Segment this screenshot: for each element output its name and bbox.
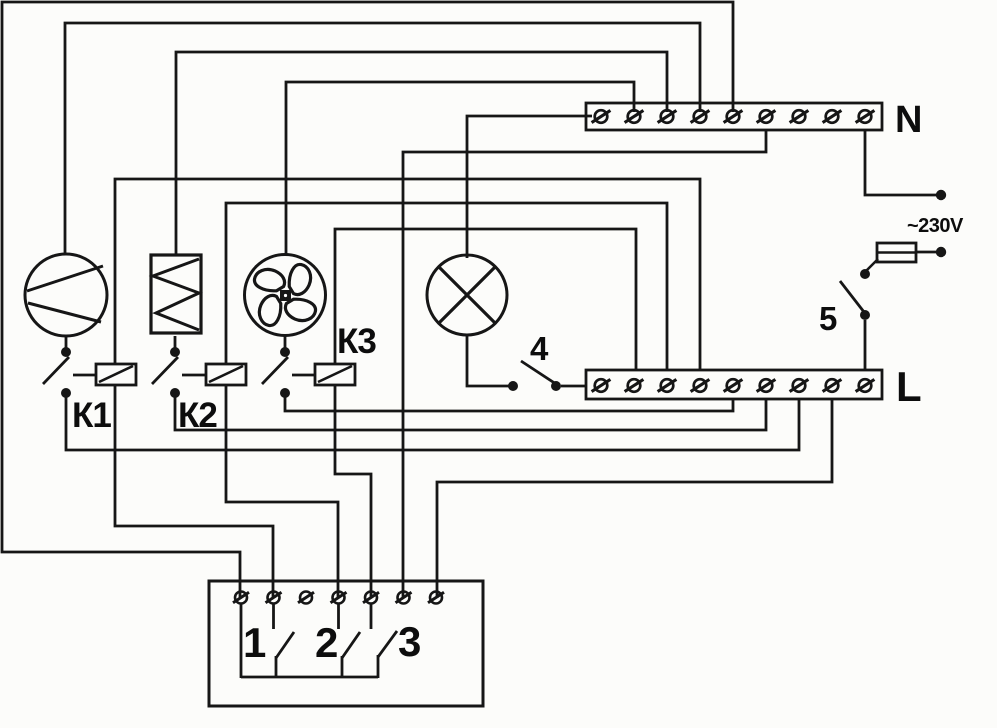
wire: K1 contact bottom to L bus terminal L7 <box>66 395 799 450</box>
wire: load bottom to K2 contact <box>174 336 177 349</box>
svg-text:2: 2 <box>315 619 338 666</box>
wire: relay K1 coil bottom to thermostat-box terminal 2 <box>115 384 273 598</box>
svg-text:5: 5 <box>819 300 837 337</box>
wire: thermostat switch 2 upper from terminal 4 <box>337 604 340 629</box>
thermostat terminal 6 <box>396 592 412 604</box>
svg-text:1: 1 <box>243 619 266 666</box>
svg-text:3: 3 <box>398 618 421 665</box>
svg-text:~230V: ~230V <box>907 215 964 237</box>
svg-text:К1: К1 <box>72 396 111 435</box>
terminal N6 <box>757 110 776 123</box>
mechanical link dash K3 <box>292 374 315 377</box>
wire: switch 4 to L block <box>561 385 587 388</box>
motor M (compressor), circle symbol <box>25 254 107 336</box>
node: mains live terminal <box>936 247 946 257</box>
switch blade of relay contact K2 <box>152 357 178 384</box>
thermostat terminal 1 <box>233 592 249 604</box>
node: K3 contact upper terminal <box>280 347 290 357</box>
terminal block N (bus bar) <box>586 103 882 130</box>
terminal N7 <box>790 110 809 123</box>
wire: relay K2 coil top to L bus terminal L3 <box>226 203 667 370</box>
terminal L8 <box>823 379 842 392</box>
svg-text:К3: К3 <box>337 322 376 361</box>
svg-text:N: N <box>895 99 922 141</box>
node: K1 contact lower terminal <box>61 388 71 398</box>
wire: L bus terminal L8 to thermostat-box terminal 7 <box>437 399 832 598</box>
mechanical link dash K2 <box>182 374 206 377</box>
terminal L2 <box>625 379 644 392</box>
node: switch 4 left terminal <box>508 381 518 391</box>
wire: thermostat common bus <box>241 676 378 679</box>
fan (circle with 4-blade impeller) <box>245 255 326 336</box>
switch blade of relay contact K3 <box>262 357 288 384</box>
lamp (circle with X) <box>427 255 507 335</box>
relay coil K2 (box with diagonal) <box>206 364 246 385</box>
terminal N9 <box>856 110 875 123</box>
terminal N4 <box>691 110 710 123</box>
relay coil K3 (box with diagonal) <box>315 364 355 385</box>
fuse FU (box with through line) <box>877 243 916 262</box>
terminal N1 <box>592 110 611 123</box>
node: K2 contact lower terminal <box>170 388 180 398</box>
wire: K2 contact bottom to L bus terminal L6 <box>175 395 766 430</box>
wire: switch 5 to L bus terminal L9 <box>864 320 867 370</box>
node: switch 5 upper terminal <box>860 269 870 279</box>
terminal L1 <box>592 379 611 392</box>
svg-text:К2: К2 <box>178 396 217 435</box>
wire: fan top to N bus terminal N2 <box>286 82 634 256</box>
wire: live terminal to fuse <box>916 251 936 254</box>
terminal L3 <box>658 379 677 392</box>
node: mains neutral terminal ~230V <box>936 190 946 200</box>
thermostat terminal 5 <box>363 592 379 604</box>
mechanical link dash K1 <box>73 374 96 377</box>
wire: relay K2 coil bottom to thermostat-box terminal 4 <box>226 384 338 598</box>
thermostat switch 1 blade <box>276 632 294 658</box>
terminal L5 <box>724 379 743 392</box>
wire: load bottom to K1 contact <box>65 336 68 349</box>
wire: switch 3 blade to bus <box>377 655 380 678</box>
wire: motor M top to N bus terminal N4 <box>65 23 700 254</box>
node: K1 contact upper terminal <box>61 347 71 357</box>
terminal L6 <box>757 379 776 392</box>
wire: lamp top to N bus terminal N1 <box>467 116 592 258</box>
node: K2 contact upper terminal <box>170 347 180 357</box>
wire: N bus terminal N6 to thermostat-box terminal 6 <box>403 130 766 598</box>
wire: K3 contact bottom to L bus terminal L5 <box>285 395 733 411</box>
wire: lamp bottom to switch 4 <box>467 335 509 386</box>
svg-text:4: 4 <box>530 330 549 367</box>
node: K3 contact lower terminal <box>280 388 290 398</box>
node: switch 4 right terminal <box>551 381 561 391</box>
switch blade of relay contact K1 <box>43 357 69 384</box>
terminal N3 <box>658 110 677 123</box>
node: switch 5 lower terminal <box>860 310 870 320</box>
wire: relay K3 coil bottom to thermostat-box terminal 5 <box>335 384 371 598</box>
terminal L4 <box>691 379 710 392</box>
wire: relay K3 coil top to L bus terminal L2 <box>335 229 636 370</box>
thermostat switch 2 blade <box>342 632 360 658</box>
wire: switch 2 blade to bus <box>341 656 344 678</box>
terminal N8 <box>823 110 842 123</box>
wire: fuse to switch 5 <box>866 259 878 271</box>
wire: thermostat switch 3 upper from terminal 5 <box>370 604 373 629</box>
wire: relay K1 coil top to L bus terminal L4 <box>115 179 700 370</box>
svg-text:L: L <box>896 363 922 410</box>
wire: heater top to N bus terminal N3 <box>176 52 667 256</box>
terminal N5 <box>724 110 743 123</box>
wire: switch 1 blade to bus <box>275 656 278 678</box>
wire: thermostat common bus from terminal 1 <box>240 604 243 678</box>
wire: thermostat-box terminal 1 common to N bus terminal N5 (outer loop) <box>2 2 733 598</box>
wire: load bottom to K3 contact <box>284 336 287 349</box>
thermostat terminal 2 <box>266 592 282 604</box>
wire: N bus terminal N9 to mains neutral terminal <box>865 130 938 195</box>
wire: thermostat switch 1 upper from terminal 2 <box>272 604 275 629</box>
thermostat terminal 4 <box>331 592 347 604</box>
heater (rect with zigzag element) <box>151 255 201 333</box>
terminal L7 <box>790 379 809 392</box>
thermostat terminal 7 <box>428 592 444 604</box>
switch 5 blade <box>840 281 864 312</box>
terminal L9 <box>856 379 875 392</box>
relay coil K1 (box with diagonal) <box>96 364 136 385</box>
switch 4 blade <box>521 361 556 384</box>
thermostat switch 3 blade <box>378 631 397 657</box>
thermostat terminal 3 <box>298 592 314 604</box>
terminal block L (bus bar) <box>586 370 882 399</box>
terminal N2 <box>625 110 644 123</box>
thermostat box outline <box>209 581 483 706</box>
